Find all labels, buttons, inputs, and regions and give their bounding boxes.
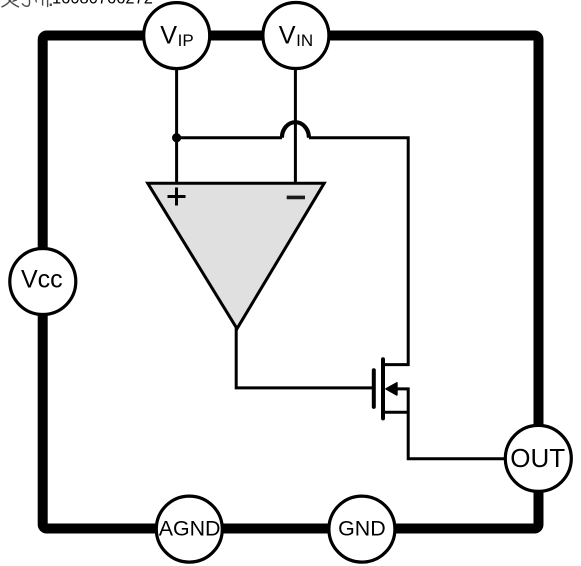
op-amp U1 (comparator, pointing down)	[148, 183, 325, 329]
transistor Q1 channel bar	[381, 359, 385, 418]
wire: hop to drain of Q1	[309, 138, 408, 365]
svg-text:V: V	[279, 21, 296, 49]
op-amp - input label	[287, 196, 305, 200]
op-amp + input label	[168, 188, 186, 206]
wire: op-amp output to gate of Q1	[236, 328, 372, 388]
wire hop over VIN lead	[282, 122, 309, 138]
pin Vcc circle	[10, 249, 76, 315]
svg-text:OUT: OUT	[510, 443, 565, 473]
svg-text:V: V	[160, 21, 177, 49]
svg-text:IN: IN	[296, 31, 313, 50]
svg-text:IP: IP	[178, 31, 194, 50]
transistor Q1 body arrow	[386, 383, 397, 395]
wire: VIN lead to - input	[294, 66, 297, 185]
pin OUT circle	[505, 425, 571, 491]
svg-text:16080766272: 16080766272	[52, 0, 153, 8]
wire: Q1 body/source to OUT pin	[397, 389, 506, 459]
pin VIP circle	[144, 3, 210, 69]
node A junction dot	[172, 133, 181, 142]
watermark colon dot	[50, 3, 53, 6]
svg-text:AGND: AGND	[159, 516, 221, 540]
watermark text (top, clipped)	[2, 0, 48, 7]
svg-text:Vcc: Vcc	[21, 266, 63, 294]
transistor Q1 gate bar	[372, 370, 376, 407]
pin GND circle	[329, 496, 395, 562]
wire: feedback from node A toward hop	[177, 136, 282, 139]
pin AGND circle	[156, 496, 222, 562]
pin VIN circle	[263, 3, 329, 69]
wire: Q1 source lead	[385, 411, 408, 414]
IC boundary box	[43, 36, 539, 529]
svg-text:GND: GND	[338, 516, 386, 540]
wire: VIP lead to + input	[175, 66, 178, 185]
